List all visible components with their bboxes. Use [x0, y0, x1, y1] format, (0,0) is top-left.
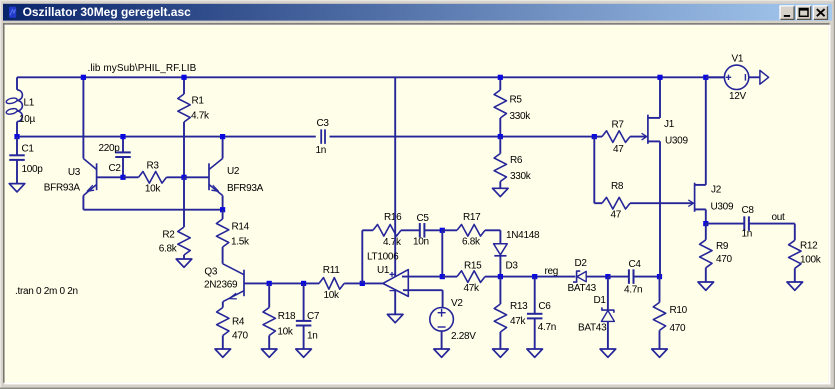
svg-text:470: 470 [716, 254, 733, 265]
label U2 name [227, 166, 240, 177]
capacitor C5 [420, 223, 443, 238]
resistor R18 [263, 283, 275, 349]
diode D2 BAT43 [573, 271, 608, 282]
jfet J1 U309 [642, 77, 660, 276]
label R5 value [510, 111, 532, 122]
label J1 name [664, 119, 675, 130]
svg-text:R16: R16 [384, 212, 402, 223]
ground below R9 [698, 282, 714, 290]
svg-text:C7: C7 [307, 311, 320, 322]
svg-text:R15: R15 [464, 260, 482, 271]
ground below R6 [493, 188, 509, 196]
svg-text:R14: R14 [232, 221, 250, 232]
wire fb node down [441, 230, 443, 276]
label C4 name [629, 259, 642, 270]
label C7 name [307, 311, 320, 322]
minimize button [780, 6, 794, 20]
capacitor C6 [527, 277, 543, 349]
svg-text:47k: 47k [510, 316, 527, 327]
svg-text:R13: R13 [510, 301, 528, 312]
label C3 value [316, 145, 327, 156]
voltage source V2 2.28V [430, 290, 454, 349]
svg-text:BFR93A: BFR93A [227, 183, 264, 194]
diode D1 BAT43 [601, 277, 614, 349]
junction inverting node [440, 274, 445, 279]
label R11 name [323, 265, 340, 276]
svg-text:4.7k: 4.7k [191, 111, 210, 122]
label C4 value [624, 284, 642, 295]
capacitor C3 [321, 129, 325, 144]
svg-text:10k: 10k [277, 326, 294, 337]
label R4 value [232, 330, 249, 341]
resistor R14 [216, 210, 228, 264]
label V2 value [451, 331, 476, 342]
label R16 value [383, 237, 402, 248]
label C6 name [538, 301, 551, 312]
svg-text:U309: U309 [665, 135, 688, 146]
ground below R12 [787, 282, 803, 290]
svg-text:C1: C1 [22, 144, 35, 155]
label Q3 value [204, 280, 238, 291]
close button [813, 6, 827, 20]
svg-text:47: 47 [613, 144, 624, 155]
label R9 name [716, 241, 729, 252]
wire U3 collector to rail1 [82, 77, 84, 158]
label C2 name [109, 163, 122, 174]
label R7 value [613, 144, 624, 155]
resistor R17 [457, 225, 500, 237]
junction base row R1/R2 [181, 175, 186, 180]
svg-text:10n: 10n [413, 237, 429, 248]
label R1 value [191, 111, 210, 122]
ground below R18 [261, 349, 277, 357]
svg-text:47k: 47k [464, 283, 481, 294]
svg-text:D2: D2 [575, 258, 588, 269]
svg-text:reg: reg [545, 266, 559, 277]
wire U2 collector to rail2 [222, 137, 224, 159]
ground below R4 [215, 349, 231, 357]
svg-text:R6: R6 [510, 155, 523, 166]
resistor R7 [602, 131, 646, 143]
svg-text:470: 470 [670, 323, 687, 334]
transistor U3 BFR93A [83, 159, 123, 196]
junction R5 top [498, 75, 503, 80]
label R3 name [147, 160, 160, 171]
label R17 name [463, 212, 481, 223]
svg-text:6.8k: 6.8k [462, 237, 481, 248]
svg-text:BAT43: BAT43 [568, 283, 597, 294]
svg-text:1n: 1n [307, 330, 318, 341]
capacitor C8 [706, 216, 795, 231]
svg-text:R17: R17 [463, 212, 481, 223]
svg-text:U1: U1 [377, 265, 390, 276]
svg-text:1N4148: 1N4148 [506, 230, 540, 241]
svg-text:U309: U309 [711, 202, 734, 213]
wire branch down to R8 [593, 137, 595, 204]
junction R13 top [498, 274, 503, 279]
label C2 value [99, 143, 121, 154]
resistor R9 [700, 224, 712, 282]
svg-text:R7: R7 [612, 119, 625, 130]
junction D1 top [605, 274, 610, 279]
svg-text:10µ: 10µ [19, 114, 36, 125]
svg-text:4.7k: 4.7k [383, 237, 402, 248]
label D1 name [594, 295, 607, 306]
svg-text:C8: C8 [742, 205, 755, 216]
svg-text:J1: J1 [664, 119, 675, 130]
junction U2 collector [220, 134, 225, 139]
junction R18 top [267, 281, 272, 286]
net flag arrow at V1 [760, 70, 769, 84]
svg-text:1n: 1n [316, 145, 327, 156]
diode D3 1N4148 [494, 230, 508, 276]
junction U3 collector rail1 [81, 75, 86, 80]
label R16 name [384, 212, 402, 223]
junction R7 branch [592, 134, 597, 139]
svg-text:V1: V1 [732, 54, 744, 65]
voltage source V1 12V [706, 65, 760, 89]
junction C4 right [657, 274, 662, 279]
label C5 name [417, 213, 430, 224]
svg-text:.lib mySub\PHIL_RF.LIB: .lib mySub\PHIL_RF.LIB [88, 63, 197, 74]
inductor L1 [6, 77, 23, 136]
maximize button [797, 6, 811, 20]
wire U2 emitter down [222, 196, 224, 210]
svg-text:4.7n: 4.7n [538, 322, 556, 333]
label Q3 name [204, 266, 217, 277]
label C5 value [413, 237, 429, 248]
label R13 value [510, 316, 527, 327]
ground below C6 [527, 349, 543, 357]
wire rail2 to R7 [594, 136, 602, 138]
wire rail2 right segment [330, 136, 595, 138]
directive .lib [88, 63, 197, 74]
svg-text:330k: 330k [510, 171, 532, 182]
resistor R3 [123, 172, 184, 184]
junction L1/C1/rail2 [14, 134, 19, 139]
op-amp U1 LT1006 [383, 77, 443, 314]
ground below C7 [296, 349, 312, 357]
svg-text:R12: R12 [800, 241, 818, 252]
label R14 name [232, 221, 250, 232]
junction J2 drain rail1 [703, 75, 708, 80]
label U1 name [377, 265, 390, 276]
label R8 name [611, 181, 624, 192]
label R12 value [800, 254, 822, 265]
wire U2 base [184, 176, 209, 178]
svg-text:C4: C4 [629, 259, 642, 270]
label R7 name [612, 119, 625, 130]
label R13 name [510, 301, 528, 312]
label R14 value [231, 237, 250, 248]
junction C7 top [301, 281, 306, 286]
svg-text:R8: R8 [611, 181, 624, 192]
svg-text:100k: 100k [800, 254, 822, 265]
svg-text:10k: 10k [324, 290, 341, 301]
label R15 value [464, 283, 481, 294]
junction C2 bottom [120, 175, 125, 180]
wire C5 node to R17 [442, 229, 457, 231]
svg-text:100p: 100p [22, 164, 44, 175]
ground below R13 [493, 349, 509, 357]
capacitor C1 [9, 137, 25, 184]
junction feedback node [440, 228, 445, 233]
junction C2 top [120, 134, 125, 139]
ground below op-amp [387, 314, 403, 322]
label R1 name [192, 95, 205, 106]
wire inverting row to reg [500, 276, 575, 278]
label C7 value [307, 330, 318, 341]
wire Q3 emitter down [222, 302, 224, 308]
svg-text:R3: R3 [147, 160, 160, 171]
svg-text:330k: 330k [510, 111, 532, 122]
label R6 value [510, 171, 532, 182]
label R12 name [800, 241, 818, 252]
label R17 value [462, 237, 481, 248]
svg-text:4.7n: 4.7n [624, 284, 642, 295]
label U3 name [68, 167, 81, 178]
label U1 type [367, 252, 399, 263]
label J2 value [711, 202, 734, 213]
svg-text:47: 47 [611, 210, 622, 221]
svg-text:Q3: Q3 [204, 266, 217, 277]
transistor Q3 2N2369 [223, 264, 270, 302]
svg-text:J2: J2 [711, 184, 722, 195]
junction R5 bottom rail2 [498, 134, 503, 139]
svg-text:1n: 1n [742, 228, 753, 239]
resistor R10 [653, 277, 665, 349]
wire Q3 base row [269, 282, 319, 284]
svg-text:C6: C6 [538, 301, 551, 312]
label C8 value [742, 228, 753, 239]
svg-text:U3: U3 [68, 167, 81, 178]
label R10 value [670, 323, 687, 334]
svg-text:D3: D3 [506, 261, 519, 272]
label C1 value [22, 164, 44, 175]
jfet J2 U309 [688, 77, 706, 223]
svg-text:220p: 220p [99, 143, 121, 154]
label net out [772, 212, 786, 223]
svg-text:R9: R9 [716, 241, 729, 252]
label R15 name [464, 260, 482, 271]
label U2 value [227, 183, 264, 194]
label C1 name [22, 144, 35, 155]
resistor R11 [319, 278, 383, 290]
resistor R6 [494, 137, 506, 189]
resistor R2 [178, 177, 190, 259]
label D2 name [575, 258, 588, 269]
wire U3 emitter down [82, 196, 84, 210]
label U3 value [44, 182, 81, 193]
label R3 value [145, 183, 162, 194]
wire top supply rail (V1+ net) [17, 76, 724, 78]
junction emitter row R14 [220, 207, 225, 212]
label L1 name [24, 98, 35, 109]
svg-text:R18: R18 [278, 311, 296, 322]
junction J2 source / R9 [703, 221, 708, 226]
svg-text:V2: V2 [451, 298, 463, 309]
ground below D1 [600, 349, 616, 357]
ground below C1 [9, 184, 25, 192]
svg-text:10k: 10k [145, 183, 162, 194]
svg-text:2N2369: 2N2369 [204, 280, 238, 291]
ground below V2 [434, 349, 450, 357]
label R18 value [277, 326, 294, 337]
resistor R1 [178, 77, 190, 177]
ground below R10 [652, 349, 668, 357]
label R5 name [510, 94, 523, 105]
title bar app icon [9, 7, 16, 18]
label V1 name [732, 54, 744, 65]
label R6 name [510, 155, 523, 166]
label R9 value [716, 254, 733, 265]
svg-text:R11: R11 [323, 265, 340, 276]
capacitor C4 [608, 269, 660, 284]
label V2 name [451, 298, 463, 309]
label V1 value [729, 91, 747, 102]
label R2 name [162, 230, 175, 241]
capacitor C7 [296, 283, 312, 349]
svg-text:out: out [772, 212, 786, 223]
label D1 value [578, 323, 607, 334]
svg-text:1.5k: 1.5k [231, 237, 250, 248]
capacitor C2 [115, 137, 131, 178]
svg-text:L1: L1 [24, 98, 35, 109]
resistor R15 [442, 271, 500, 283]
label R10 name [670, 305, 688, 316]
svg-text:R5: R5 [510, 94, 523, 105]
label R2 value [159, 243, 178, 254]
resistor R4 [217, 308, 229, 350]
svg-text:BFR93A: BFR93A [44, 182, 81, 193]
svg-text:470: 470 [232, 330, 249, 341]
junction J1 drain rail1 [657, 75, 662, 80]
svg-text:R1: R1 [192, 95, 205, 106]
svg-text:6.8k: 6.8k [159, 243, 178, 254]
svg-text:U2: U2 [227, 166, 240, 177]
junction C6 top [532, 274, 537, 279]
label C6 value [538, 322, 556, 333]
svg-text:C2: C2 [109, 163, 122, 174]
ground below R2 [176, 259, 192, 267]
svg-text:.tran 0 2m 0 2n: .tran 0 2m 0 2n [15, 286, 78, 297]
label R18 name [278, 311, 296, 322]
resistor R8 [594, 197, 693, 209]
label C8 name [742, 205, 755, 216]
label R11 value [324, 290, 341, 301]
wire feedback vertical [361, 230, 363, 283]
resistor R5 [494, 77, 506, 136]
label J2 name [711, 184, 722, 195]
svg-text:BAT43: BAT43 [578, 323, 607, 334]
label D2 value [568, 283, 597, 294]
svg-text:C5: C5 [417, 213, 430, 224]
wire feedback to R16 [362, 229, 373, 231]
svg-text:D1: D1 [594, 295, 607, 306]
svg-text:R10: R10 [670, 305, 688, 316]
wire emitter row [83, 209, 222, 211]
svg-text:12V: 12V [729, 91, 747, 102]
directive .tran [15, 286, 78, 297]
label D3 name [506, 261, 519, 272]
label net reg [545, 266, 559, 277]
svg-text:2.28V: 2.28V [451, 331, 476, 342]
label J1 value [665, 135, 688, 146]
svg-text:R2: R2 [162, 230, 175, 241]
junction R1 top [181, 75, 186, 80]
junction opamp output [360, 281, 365, 286]
resistor R16 [373, 225, 419, 237]
label C3 name [317, 118, 330, 129]
resistor R12 [789, 224, 801, 282]
transistor U2 BFR93A [209, 159, 223, 196]
label R4 name [232, 316, 245, 327]
svg-text:C3: C3 [317, 118, 330, 129]
label L1 value [19, 114, 36, 125]
label R8 value [611, 210, 622, 221]
svg-text:Oszillator 30Meg geregelt.asc: Oszillator 30Meg geregelt.asc [23, 5, 191, 19]
svg-text:R4: R4 [232, 316, 245, 327]
wire rail2 left segment [17, 136, 316, 138]
svg-text:LT1006: LT1006 [367, 252, 399, 263]
label D3 value [506, 230, 540, 241]
resistor R13 [494, 277, 506, 349]
